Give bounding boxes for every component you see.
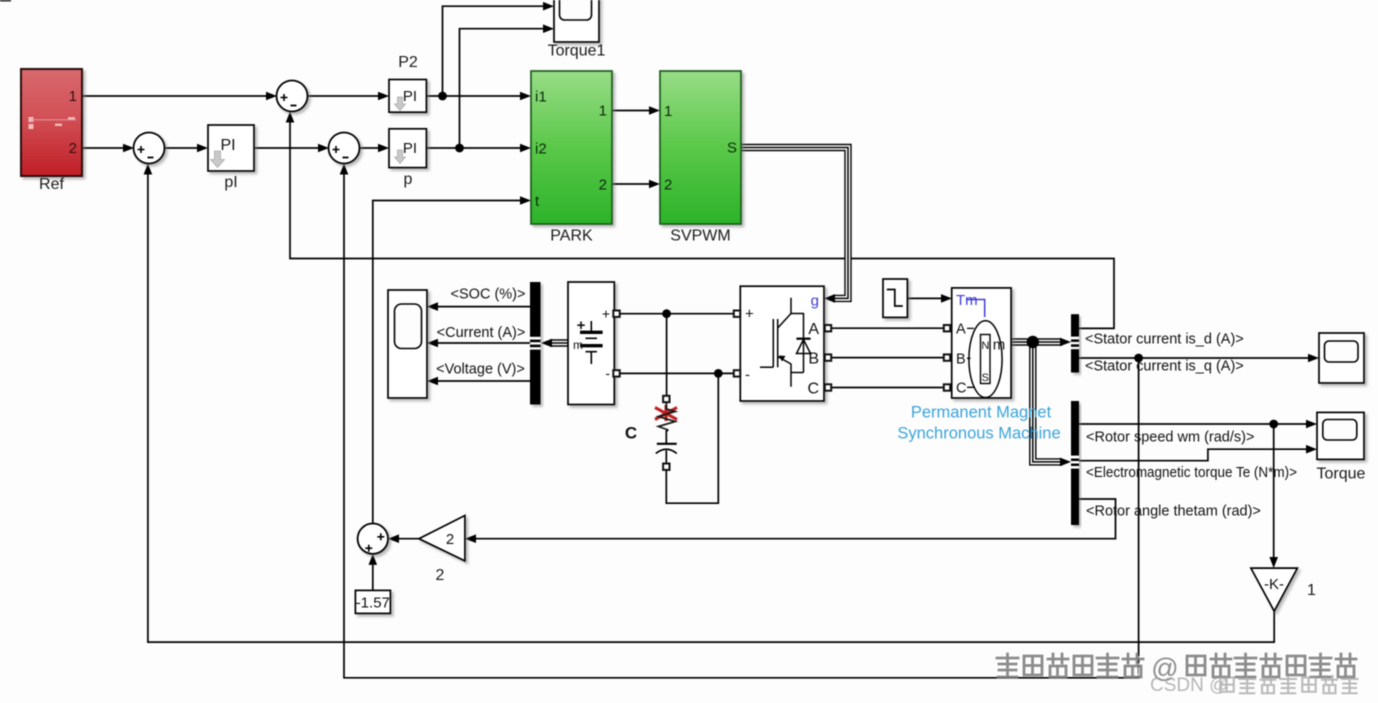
port square: inverter C: [825, 384, 831, 390]
svg-text:1: 1: [69, 88, 77, 105]
bus selector bus2: [1071, 401, 1079, 525]
constant -1.57: [355, 590, 390, 613]
wire: Ref out1 to sum P2: [82, 95, 266, 97]
sum junction (is_d loop): [277, 81, 308, 112]
wire: constant -1.57 up to sum angle: [372, 565, 374, 591]
wire: stator current is_d feedback (bus1 out1 to sum P2 bottom): [290, 123, 1114, 329]
svg-text:pI: pI: [224, 174, 237, 191]
svg-text:-: -: [605, 365, 610, 381]
svg-text:<Stator current is_q (A)>: <Stator current is_q (A)>: [1085, 359, 1244, 375]
port square: PMSM C: [944, 384, 950, 390]
port square: inverter -: [734, 370, 740, 376]
universal bridge inverter: [740, 286, 824, 401]
port square: PMSM A: [944, 325, 950, 331]
watermark CSDN @ ...: [1150, 675, 1358, 696]
svg-text:g: g: [811, 293, 819, 310]
wire: battery + to inverter +: [620, 313, 735, 315]
wire: sum pI to PI block pI: [165, 147, 198, 149]
svg-text:2: 2: [436, 567, 445, 584]
bus selector bus1: [1071, 314, 1079, 372]
svg-text:Torque1: Torque1: [548, 43, 606, 60]
port square: inverter A: [825, 325, 831, 331]
wire: pI to sum p: [254, 147, 318, 149]
subsystem PARK: [531, 71, 612, 245]
svg-text:<SOC (%)>: <SOC (%)>: [451, 287, 526, 303]
svg-text:<Stator current is_d (A)>: <Stator current is_d (A)>: [1085, 332, 1244, 348]
svg-text:S: S: [982, 372, 989, 384]
wire: bus0 out2 to scope3: [438, 342, 530, 344]
svg-text:PI: PI: [403, 88, 417, 105]
svg-text:B: B: [956, 352, 966, 368]
port square: inverter B: [825, 354, 831, 360]
svg-text:C: C: [807, 381, 819, 398]
vector wire: m branch down to bus2 (triple line): [1033, 342, 1071, 466]
PMSM machine block: [952, 288, 1011, 398]
svg-text:SVPWM: SVPWM: [670, 228, 730, 245]
svg-text:<Rotor angle thetam (rad)>: <Rotor angle thetam (rad)>: [1086, 504, 1261, 520]
junction dot: [662, 309, 671, 318]
series RLC branch (R with C): [655, 402, 677, 464]
svg-text:1: 1: [664, 103, 672, 120]
svg-text:p: p: [404, 171, 413, 188]
svg-text:Synchronous Machine: Synchronous Machine: [897, 425, 1060, 443]
vector wire: SVPWM S to inverter g (triple line): [741, 148, 848, 303]
wire: gain -K- output feedback to sum pI bottom: [148, 175, 1274, 643]
PI controller p: [389, 129, 426, 188]
battery block: [568, 282, 614, 405]
scope (battery measurements): [388, 290, 427, 398]
gain 2: [419, 516, 465, 585]
svg-text:<Electromagnetic torque Te (N*: <Electromagnetic torque Te (N*m)>: [1086, 465, 1297, 481]
wire: PARK out1 to SVPWM in1: [612, 110, 649, 112]
port square: battery +: [613, 311, 619, 317]
svg-text:PARK: PARK: [550, 228, 593, 245]
wire: battery - to inverter -: [620, 372, 735, 374]
port square: PMSM B: [944, 354, 950, 360]
port square: RC top: [663, 396, 669, 402]
svg-text:CSDN @: CSDN @: [1150, 675, 1228, 696]
wire: inverter C to PMSM C: [831, 387, 944, 389]
wire: inverter A to PMSM A: [831, 327, 944, 329]
svg-text:PI: PI: [220, 137, 235, 154]
svg-text:-K-: -K-: [1264, 576, 1284, 593]
junction dot: [1134, 354, 1143, 363]
wire: wm branch down to gain -K-: [1273, 424, 1275, 557]
PI controller pI: [208, 125, 254, 191]
scope Torque1: [548, 0, 606, 60]
wire: bus0 out3 to scope3: [438, 380, 530, 382]
wire: sum p to PI block p: [360, 147, 379, 149]
svg-text:N: N: [981, 340, 989, 352]
PI controller P2: [389, 54, 426, 112]
wire: rotor speed wm to scope Torque in1: [1079, 423, 1306, 425]
svg-text:2: 2: [69, 140, 77, 157]
svg-text:Permanent Magnet: Permanent Magnet: [911, 404, 1052, 422]
sum junction (speed loop): [134, 133, 165, 164]
wire: + rail down to RC branch: [666, 314, 668, 396]
port square: inverter +: [734, 311, 740, 317]
bus selector bus0: [530, 282, 541, 405]
watermark 掘金技术社区 @ 可编程芯片开发: [996, 653, 1356, 683]
svg-text:C: C: [625, 424, 637, 443]
junction dot: [714, 369, 723, 378]
wire: rotor angle thetam to gain 2: [476, 499, 1116, 539]
diode icon: [803, 313, 805, 373]
wire: RC branch bottom loop to - rail: [666, 373, 718, 503]
svg-text:Torque: Torque: [1317, 466, 1366, 483]
sum junction (is_q loop): [329, 133, 360, 164]
svg-text:A: A: [808, 321, 819, 338]
vector wire: PMSM m to bus1 (triple line): [1011, 338, 1071, 347]
wire: PARK out2 to SVPWM in2: [612, 183, 649, 185]
wire: branch up to scope Torque1 in2: [460, 29, 544, 148]
svg-text:<Voltage (V)>: <Voltage (V)>: [436, 362, 525, 378]
svg-text:i2: i2: [535, 141, 547, 158]
svg-text:2: 2: [664, 177, 672, 194]
subsystem SVPWM: [660, 71, 741, 245]
svg-text:S: S: [727, 140, 737, 157]
svg-text:P2: P2: [398, 54, 418, 71]
source block Ref: [21, 69, 82, 193]
wire: Ref out2 to sum pI: [82, 147, 123, 149]
svg-text:2: 2: [599, 177, 607, 194]
junction dot: [455, 144, 464, 153]
wire: step to PMSM Tm: [907, 297, 941, 299]
scope Torque: [1317, 412, 1366, 482]
gain -K-: [1251, 568, 1316, 611]
svg-text:1: 1: [599, 102, 607, 119]
corner artifact top-left: [0, 0, 11, 2]
scope (stator currents): [1319, 333, 1364, 383]
junction dot: [438, 92, 447, 101]
svg-text:i1: i1: [535, 89, 547, 106]
wire: branch up to scope Torque1 in1: [443, 6, 544, 96]
port square: RC bottom: [663, 464, 669, 470]
wire: sum angle output up to PARK t input: [373, 201, 520, 524]
svg-text:1: 1: [1307, 582, 1316, 599]
step source block: [883, 279, 907, 317]
svg-text:-: -: [745, 367, 750, 384]
svg-text:Ref: Ref: [39, 176, 64, 193]
svg-text:+: +: [745, 306, 754, 323]
port square: battery -: [613, 370, 619, 376]
svg-text:m: m: [573, 338, 583, 352]
svg-text:2: 2: [446, 531, 454, 548]
svg-text:PI: PI: [403, 140, 417, 157]
wire: gain 2 to sum angle: [399, 538, 419, 540]
wire: is_q feedback branch to sum p bottom: [344, 175, 1139, 678]
wire: stator current is_q to scope1: [1079, 357, 1308, 359]
junction dot (bus node m): [1027, 336, 1039, 348]
wire: bus0 out1 to scope3: [438, 306, 530, 308]
wire: electromagnetic torque Te to scope Torque in2: [1079, 449, 1306, 461]
svg-text:m: m: [993, 337, 1006, 354]
wire: P2 to PARK i1: [426, 95, 520, 97]
svg-text:+: +: [602, 306, 610, 322]
svg-text:<Current (A)>: <Current (A)>: [437, 325, 526, 341]
svg-text:C: C: [956, 381, 966, 397]
vector wire: battery m to bus0 (triple line): [541, 339, 568, 348]
svg-text:Tm: Tm: [956, 292, 978, 309]
junction dot: [1269, 420, 1278, 429]
svg-text:<Rotor speed wm (rad/s)>: <Rotor speed wm (rad/s)>: [1086, 430, 1254, 446]
svg-text:A: A: [956, 322, 966, 338]
wire: sum P2 to PI block P2: [308, 95, 379, 97]
IGBT icon: [773, 319, 777, 367]
wire: inverter B to PMSM B: [831, 357, 944, 359]
svg-text:-1.57: -1.57: [356, 595, 390, 612]
sum junction (angle offset): [358, 524, 388, 554]
wire: p to PARK i2: [426, 147, 520, 149]
